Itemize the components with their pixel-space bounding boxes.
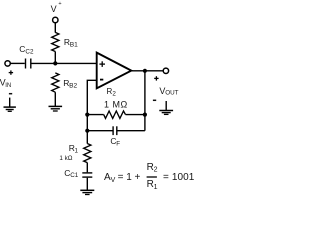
wire op-amp output — [131, 70, 163, 72]
wire CC1 to ground — [86, 178, 88, 190]
wire RB1 to input node — [54, 52, 56, 64]
op-amp - pin mark — [100, 79, 103, 81]
wire - input to feedback — [87, 80, 96, 130]
svg-text:= 1 +: = 1 + — [118, 172, 141, 183]
label CC1 — [64, 168, 79, 179]
svg-text:1 kΩ: 1 kΩ — [59, 155, 72, 162]
label RB1 — [64, 37, 78, 49]
VIN input terminal — [5, 61, 10, 66]
svg-text:C2: C2 — [25, 49, 34, 56]
node R2 right — [143, 113, 147, 117]
VIN - polarity — [9, 93, 12, 95]
V+ supply terminal — [53, 17, 58, 22]
svg-text:V: V — [51, 4, 57, 14]
svg-text:B1: B1 — [70, 41, 78, 48]
node output — [143, 69, 147, 73]
label R1 — [69, 143, 79, 155]
ground (RB2) — [49, 106, 63, 111]
svg-text:F: F — [116, 141, 120, 148]
label CF — [110, 136, 120, 147]
V+ label — [51, 1, 62, 14]
op-amp + pin mark — [99, 61, 105, 67]
svg-text:1: 1 — [154, 184, 158, 191]
svg-text:1 MΩ: 1 MΩ — [104, 99, 128, 109]
label RB2 — [63, 78, 77, 90]
svg-text:C1: C1 — [70, 172, 79, 179]
ground (VOUT) — [159, 101, 173, 114]
ground (VIN) — [4, 98, 16, 112]
capacitor CC2 — [26, 59, 31, 69]
VOUT + polarity — [154, 76, 158, 80]
label VOUT — [159, 86, 178, 96]
label R2 — [107, 87, 117, 97]
resistor R2 — [104, 111, 126, 118]
wire R2 right — [126, 114, 145, 116]
node feedback left lower — [85, 129, 89, 133]
svg-text:2: 2 — [154, 167, 158, 174]
capacitor CF — [113, 126, 117, 135]
VOUT - polarity — [153, 99, 156, 101]
VOUT terminal — [163, 68, 168, 73]
svg-text:B2: B2 — [69, 83, 77, 90]
wire node to R1 — [86, 131, 88, 144]
wire feedback vertical — [144, 71, 146, 131]
wire R2 left — [87, 114, 103, 116]
node input junction — [53, 61, 57, 65]
svg-text:1: 1 — [75, 147, 79, 154]
wire CF left — [87, 130, 112, 132]
wire CC2 to op-amp + input — [32, 62, 97, 64]
svg-text:IN: IN — [5, 83, 11, 89]
resistor RB2 — [52, 73, 59, 92]
svg-text:V: V — [111, 177, 116, 184]
node feedback left upper — [85, 113, 89, 117]
gain formula AV = 1 + R2/R1 = 1001 — [104, 162, 195, 191]
svg-text:OUT: OUT — [165, 89, 178, 96]
svg-text:= 1001: = 1001 — [163, 172, 195, 183]
svg-text:2: 2 — [112, 91, 116, 98]
op-amp U1 — [97, 53, 132, 89]
label VIN — [0, 77, 11, 89]
wire VIN to CC2 — [10, 62, 24, 64]
VIN + polarity — [9, 70, 13, 74]
capacitor CC1 — [82, 173, 92, 177]
label CC2 — [19, 44, 34, 56]
resistor RB1 — [52, 32, 59, 51]
ground (CC1) — [80, 190, 94, 194]
resistor R1 — [84, 144, 91, 163]
wire R1 to CC1 — [86, 163, 88, 173]
wire V+ to RB1 — [54, 23, 56, 33]
wire RB2 to ground — [54, 92, 56, 106]
svg-text:+: + — [58, 1, 61, 7]
wire CF right — [118, 130, 145, 132]
